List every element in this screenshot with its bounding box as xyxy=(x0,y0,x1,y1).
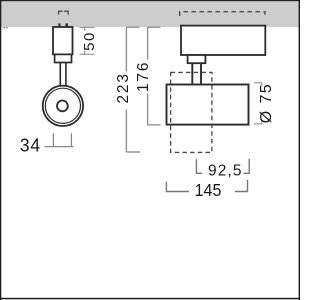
dimension 92,5 left bracket xyxy=(196,159,202,173)
dimension 92,5 right bracket xyxy=(243,159,249,174)
page left border xyxy=(0,0,1,300)
dimension 34 extension lines xyxy=(52,133,54,147)
spot head inner ring xyxy=(45,88,80,123)
spot head outer circle (front view) xyxy=(43,86,83,126)
dimension 176 line xyxy=(147,27,149,59)
dimension 223 line xyxy=(125,27,127,71)
svg-text:50: 50 xyxy=(81,31,98,51)
rotated position dashed outline xyxy=(171,72,212,152)
dimension Ø75 ticks xyxy=(254,82,263,84)
track dashed outline (front view, left fixture) xyxy=(59,11,69,14)
adapter clip prongs (left fixture) xyxy=(58,23,60,27)
dimension 223 bottom foot xyxy=(126,151,140,153)
track dashed outline (side view, right fixture) xyxy=(180,12,265,16)
svg-text:145: 145 xyxy=(195,180,222,200)
page right border xyxy=(299,0,300,300)
page bottom border xyxy=(0,298,300,300)
dimension 145 right bracket xyxy=(235,180,248,192)
track adapter box (front view) xyxy=(53,27,73,54)
dimension 176 bottom foot xyxy=(148,124,161,126)
page top border xyxy=(0,0,300,1)
track adapter box (side view) xyxy=(181,26,265,55)
stem (front view) xyxy=(59,63,61,87)
adapter step box (front view) xyxy=(55,54,72,62)
dimension 50 ticks xyxy=(80,27,95,29)
dimension 176 top foot xyxy=(148,26,161,28)
spot head center circle xyxy=(57,101,68,112)
dimension 34 line xyxy=(44,146,73,148)
svg-text:Ø 75: Ø 75 xyxy=(258,83,275,123)
dimension Ø75 line stubs xyxy=(261,83,263,86)
ceiling band xyxy=(0,0,300,27)
svg-text:223: 223 xyxy=(115,72,132,103)
knuckle (side view) xyxy=(188,55,206,63)
spot body (side view) xyxy=(167,85,249,125)
stem (side view) xyxy=(191,63,193,84)
svg-text:92,5: 92,5 xyxy=(208,162,243,179)
tiny tick marks below band far left xyxy=(4,27,5,28)
svg-text:34: 34 xyxy=(20,135,41,156)
dimension 50 line stubs xyxy=(84,28,86,32)
dimension 145 left bracket xyxy=(166,182,189,192)
dimension 223 top foot xyxy=(126,26,139,28)
svg-text:176: 176 xyxy=(135,61,152,92)
